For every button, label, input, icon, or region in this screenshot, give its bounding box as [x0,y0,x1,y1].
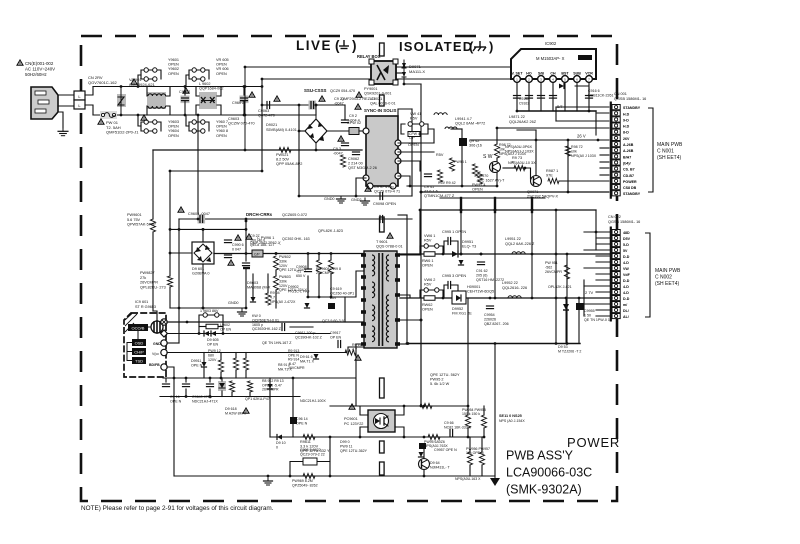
T9601 secondary winding 2 [386,295,389,342]
wire vertical x198 to sub [197,115,199,219]
wire cap bus y105 [262,104,345,106]
svg-text:C9098 OPEN: C9098 OPEN [373,202,396,206]
svg-text:OPEN: OPEN [216,134,227,138]
capacitor C9906a [225,240,232,243]
transistor Q9954 [419,459,430,470]
wire inlet N down to bottom rail [85,105,93,115]
wire fb bus y476 [175,475,495,477]
connector CN_2RV through border [74,91,85,109]
label C9062 [348,157,377,170]
wire IC right pin1 [398,142,434,144]
wire sec rail x495 [494,212,496,298]
svg-text:OP EN: OP EN [330,335,342,339]
svg-text:DL/: DL/ [623,309,629,313]
wire CN001 feed 26V y140 [470,139,612,141]
wire x293 down [292,378,294,437]
wire L9602 bottom in [196,105,199,115]
svg-text:R5V: R5V [410,117,418,121]
svg-text:226026: 226026 [484,317,496,321]
junction x179 a [178,228,181,231]
junction x170 229 [169,228,172,231]
svg-text:IC9021: IC9021 [370,97,382,101]
wire bridge2 left [170,252,192,254]
svg-text:L9941 4.7: L9941 4.7 [455,117,472,121]
diode D9602z [305,303,310,308]
black cap C9614 [290,417,297,424]
svg-text:4-D: 4-D [623,285,629,289]
wire rail x567 [566,254,568,344]
label Q9142 [469,139,482,147]
svg-text:OPEN: OPEN [216,125,227,129]
capacitor IC902 pin3 [538,96,545,99]
svg-text:C9162: C9162 [519,97,529,101]
wire bridge left stub [299,130,305,132]
wire r9619 low [231,392,233,397]
capacitor C9041 [425,174,432,177]
svg-text:QCZ9 054-470: QCZ9 054-470 [330,89,355,93]
svg-text:Y9601: Y9601 [168,58,179,62]
wire bridge top stub [315,105,317,115]
svg-text:GND0: GND0 [324,197,335,201]
svg-text:0: 0 [276,445,278,449]
svg-text:26 V: 26 V [577,134,586,139]
junction extra 42 [555,209,558,212]
wire vw41 to rail [428,129,434,143]
label C9952 [476,269,504,282]
T9601 left pin 1 [361,264,366,268]
wire drain jog [153,311,157,321]
wire CN002 left join [595,232,597,250]
wire CN001 feed y162 [600,161,612,163]
svg-text:OPE N: OPE N [170,399,182,403]
label R9956 [466,447,490,455]
capacitor C9908 [305,269,312,272]
svg-text:120V: 120V [279,284,288,288]
wire CN001 feed y168 [600,167,612,169]
wire IC902 pin 1 drop [516,82,518,111]
junction jumper a [137,85,140,88]
svg-text:CH/P: CH/P [134,350,144,355]
label R9603 [279,275,308,292]
svg-text:LIVE: LIVE [296,38,332,53]
wire c9620 up [185,378,187,382]
svg-text:D9021: D9021 [266,123,277,127]
wire q9071 base [515,168,531,179]
svg-text:C9917: C9917 [330,331,341,335]
resistor R9956a [467,452,472,465]
junction x579 top [578,297,581,300]
wire L9601 top out [166,87,170,97]
label R9072 [499,143,527,156]
junction extra 15 [244,66,247,69]
label IC9021 [370,97,396,106]
wire r9956b low [481,465,483,476]
wire r9956a top [469,437,471,452]
black cap C9610 [328,303,335,309]
IC902 pin 6 SUB [573,72,581,83]
label C9959 [300,448,325,456]
label R9958 [424,440,448,448]
wire c9621 low [209,389,211,397]
label C9917 [330,331,342,339]
wire CN001 feed y121 [556,120,612,122]
junction extra 20 [420,191,423,194]
svg-text:VR 605: VR 605 [216,58,229,62]
label L9941 [455,117,485,126]
capacitor C9063 [267,102,270,109]
inductor L9871 [434,113,447,115]
svg-text:CN 001: CN 001 [614,92,627,96]
svg-text:(SMK-9302A): (SMK-9302A) [506,483,582,497]
label Q9020 [477,174,505,183]
wire c9953 loop [444,285,448,298]
label NPS labels [505,145,534,154]
junction div b [330,252,333,255]
bracket CN002 [645,233,650,317]
svg-text:R5V R9 42: R5V R9 42 [438,181,456,185]
T9601 left pin 7 [361,334,366,338]
svg-text:R9 04: R9 04 [270,291,280,295]
svg-text:Y9603: Y9603 [168,120,179,124]
resistor PW941 [449,158,454,171]
svg-text:NPS(A0J-763X: NPS(A0J-763X [424,444,448,448]
resistor box R9605 [206,324,218,329]
wire IC right pin4 [398,176,410,186]
wire r9955b low [483,428,485,437]
isolation barrier bar 1 [380,95,385,106]
warning triangle R9916 [355,355,361,360]
svg-text:C9603: C9603 [228,117,239,121]
IC902 pin 1 V. SET [511,72,523,83]
label R9904 [270,291,296,304]
T9601 right pin 1 [395,264,400,268]
svg-text:8.2 50V: 8.2 50V [276,158,290,162]
jumper Y9604 OPEN [144,129,157,133]
label RW61 [422,259,434,268]
wire CN002 stub 4 [596,255,612,257]
junction sec 461 [460,209,463,212]
junction extra 5 [442,253,445,256]
svg-text:R987 1: R987 1 [546,169,558,173]
svg-text:QPL82KU- 273: QPL82KU- 273 [140,285,166,289]
resistor R9042a [437,170,442,182]
svg-text:L9952 22: L9952 22 [502,281,518,285]
svg-text:(SH EET4): (SH EET4) [655,281,680,287]
svg-text:C960 2: C960 2 [232,101,244,105]
wire pw912 low [220,372,222,378]
junction out1 b [480,253,483,256]
wire sub bus y297 [307,296,345,298]
svg-text:M M1503AP- X: M M1503AP- X [536,56,565,61]
wire CN002 stub 12 [584,303,612,305]
svg-text:QCZW 070-470: QCZW 070-470 [228,122,255,126]
wire c9953 loop2 [451,285,458,298]
svg-text:RW6 1: RW6 1 [422,259,434,263]
wire L9601 bottom in [146,106,148,115]
svg-text:D9952: D9952 [452,307,463,311]
wire secondary return bus y343 [407,343,580,345]
svg-text:T 9601: T 9601 [376,240,388,244]
diode D9951 [452,251,458,257]
svg-text:PW9601: PW9601 [127,213,142,217]
svg-text:OSD: OSD [135,341,144,346]
junction extra 37 [329,475,332,478]
label D9952b [452,307,472,316]
junction x421 y192 [420,191,423,194]
svg-text:D9 64: D9 64 [430,461,440,465]
wire pc left top [360,406,368,415]
wire x179 [178,219,180,343]
isolation barrier bar 3 [380,378,385,398]
capacitor C9099 inline [380,216,383,223]
svg-text:GND0: GND0 [228,301,239,305]
label PW9601 [127,213,156,227]
svg-text:OP EN: OP EN [220,327,232,331]
svg-text:CS. B7: CS. B7 [623,168,635,172]
svg-text:OCO/B: OCO/B [132,326,145,331]
wire y9605 right [219,315,223,334]
svg-text:QE TN 1HN-167 Z: QE TN 1HN-167 Z [262,341,292,345]
svg-text:5-D: 5-D [623,243,629,247]
wire transformer right mid [400,295,410,298]
wire c9959 loop [290,462,296,477]
svg-text:C96 14: C96 14 [296,417,308,421]
resistor R9872 [565,146,570,156]
wire CN002 stub 0 [584,231,612,233]
wire IC902 pin 5 drop [564,82,566,111]
svg-text:QSK9201-9-001: QSK9201-9-001 [364,92,391,96]
capacitor IC902 pin4 [550,96,557,99]
label Q9071 [527,190,558,199]
IC9001 pin xcircle [161,319,167,325]
svg-text:Y960 8: Y960 8 [216,129,228,133]
svg-text:1605 p: 1605 p [252,323,263,327]
svg-text:L9871 22: L9871 22 [509,115,525,119]
junction x246 219 [245,218,248,221]
svg-text:C995 3 OPEN: C995 3 OPEN [442,274,466,278]
junction out2 b [565,297,568,300]
wire output line1 [400,253,612,255]
transistor Q9071 [531,176,542,187]
svg-text:R9611: R9611 [300,440,311,444]
label D9953b [558,345,581,353]
label QPE12TU [430,373,460,386]
svg-text:PY9001: PY9001 [364,87,378,91]
T9601 left pin 6 [361,322,366,326]
wire jumper link b [141,122,144,131]
svg-text:26VCMPR: 26VCMPR [545,270,562,274]
svg-text:S W: S W [483,154,493,160]
junction extra 32 [275,252,278,255]
label VW61 [424,234,435,242]
ground GND0 [238,309,247,316]
wire r9913 up [235,353,237,359]
wire CN001 feed y107 [556,106,612,108]
junction extra 6 [442,297,445,300]
wire transformer right top [400,210,420,255]
black cap C9957 [419,443,426,449]
junction relay diode top [403,66,406,69]
label misc mid [300,355,315,363]
svg-text:GND2: GND2 [351,198,362,202]
IC9001 box CHP [132,348,146,355]
svg-text:HO: HO [526,72,532,76]
resistor R9602 [273,256,278,270]
wire CN002 stub 14 [596,315,612,317]
svg-text:C995 1 OPEN: C995 1 OPEN [442,230,466,234]
svg-text:AL/: AL/ [623,315,629,319]
svg-text:VCR: VCR [585,72,593,76]
junction jumper b [137,114,140,117]
junction x179 gnd [178,307,181,310]
photocoupler PC9001 [368,410,395,432]
label C9614 [296,417,308,425]
wire CN002 stub 13 [596,309,612,311]
isolation barrier bar 2 [380,217,385,232]
transformer core lines [379,253,383,346]
wire bridge2 right [214,253,364,255]
heading LIVE with earth-ground symbol [296,38,357,53]
wire sec rail x532 [531,212,533,298]
svg-text:QCP60E7H-0 01: QCP60E7H-0 01 [252,318,279,322]
svg-text:BD/FB: BD/FB [149,363,160,367]
label C9022 [349,114,360,123]
junction varistor top [120,85,123,88]
IC902 pin 5 BST [561,72,569,83]
junction x262 caprail [261,104,264,107]
wire r9605 right [218,326,223,328]
svg-text:2 214 00: 2 214 00 [348,162,363,166]
junction extra 36 [289,475,292,478]
label D9618b [225,407,247,415]
T9601 primary winding 3 [372,305,375,321]
label D9905 [207,338,219,346]
resistor R9072 [494,144,499,158]
label VA901 [129,77,156,87]
label misc low1 [262,379,284,392]
svg-text:QGV7601C-162: QGV7601C-162 [88,80,117,85]
svg-text:NOTE) Please refer to page 2-: NOTE) Please refer to page 2-91 for volt… [81,505,274,512]
capacitor C9062 [353,152,360,155]
wire c9621 up [209,378,211,382]
label CN001 [614,92,646,101]
wire d9903 up [252,274,254,297]
jumper Y9603 OPEN [144,120,157,124]
label caps vertical [519,97,529,105]
wire IC902 pin 4 drop [552,82,554,111]
wire r9956b top [481,437,483,452]
svg-text:FM XG1 2E: FM XG1 2E [452,312,472,316]
svg-text:PW97 4: PW97 4 [472,183,486,187]
junction extra 12 [245,220,248,223]
svg-text:9-D: 9-D [623,118,629,122]
svg-text:QE TN 1PW-0 1: QE TN 1PW-0 1 [584,318,610,322]
wire rail x421 low [420,320,422,406]
warning triangle T9601 [387,233,393,238]
resistor R9603 [273,276,278,290]
label C9906 [232,243,244,251]
wire r9954a top [467,406,469,415]
junction x568 bot [567,191,570,194]
junction fb left [267,475,270,478]
svg-text:C996 5.6822: C996 5.6822 [300,448,321,452]
svg-text:OPEN: OPEN [216,72,227,76]
wire relay rail down x421 [420,84,422,404]
wire STR vcc bus y352.5 [167,352,346,354]
junction gnd bridge [202,307,205,310]
wire vw62 left [420,290,424,298]
svg-text:PW9 12: PW9 12 [208,349,221,353]
svg-text:120V: 120V [279,264,288,268]
transistor Q9142 black [459,138,467,146]
svg-text:QC3920HK-162 Z: QC3920HK-162 Z [252,327,282,331]
label C9955 [584,309,610,322]
svg-text:8-D: 8-D [623,131,629,135]
warning triangle PC9001 [349,404,355,409]
T9601 primary winding 1 [372,255,375,276]
svg-text:C N001: C N001 [657,148,674,154]
wire q9020 base right [503,167,514,169]
svg-text:PW9827: PW9827 [140,271,155,275]
wire CN002 stub 11 [596,297,612,299]
wire jumper link a2 [157,70,161,79]
svg-text:NPS (A0 J-154X: NPS (A0 J-154X [499,419,525,423]
warning triangle filter left [141,115,147,120]
svg-text:D9 61 6: D9 61 6 [300,355,313,359]
wire x412 loop [411,109,413,196]
svg-text:4-D: 4-D [623,291,629,295]
svg-text:VW6 2: VW6 2 [424,278,435,282]
wire top bus y67 left [245,66,371,68]
IC9001 pin diamond [161,330,168,337]
wire STR bus y378 [163,377,355,379]
svg-text:QQS 0788-0 01: QQS 0788-0 01 [376,245,403,249]
wire CN001 feed y175 [600,174,612,176]
svg-text:PW969 8.2M: PW969 8.2M [292,479,313,483]
wire c9951 loop [444,241,448,254]
IC902 pin 2 HO [526,72,533,83]
wire CN002 stub 3 [584,249,612,251]
capacitor C9097 inline [380,193,383,200]
diode D9916 gray [314,354,319,359]
T9601 right pin 3 [395,293,400,297]
resistor R9619 [229,381,234,392]
junction q9071 col [535,139,538,142]
wire q9020 up [496,128,498,144]
svg-text:IC9 601: IC9 601 [135,300,148,304]
label PW9827 [140,271,166,289]
capacitor C9603 X-cap [240,96,249,104]
svg-text:QQL2616- 226: QQL2616- 226 [502,286,527,290]
diode H9001 boxed [452,291,466,304]
junction extra 27 [220,377,223,380]
svg-text:C91 62: C91 62 [476,269,488,273]
junction x262 toprail [261,85,264,88]
svg-text:PW 951: PW 951 [545,261,558,265]
svg-text:C9 97 470p: C9 97 470p [374,185,394,189]
wire c9959 loop2 [324,462,330,477]
junction x198 start [197,114,200,117]
resistor R9073 [514,165,525,170]
svg-text:POWER: POWER [623,180,637,184]
svg-text:5. 6k 1/2 W: 5. 6k 1/2 W [430,382,450,386]
wire CN002 stub 5 [596,261,612,263]
svg-text:D9951: D9951 [462,240,473,244]
wire r9956a low [469,465,471,476]
junction cn002 join [595,231,598,234]
jumper VW41 [408,122,424,126]
label CN 2RV [88,75,117,85]
